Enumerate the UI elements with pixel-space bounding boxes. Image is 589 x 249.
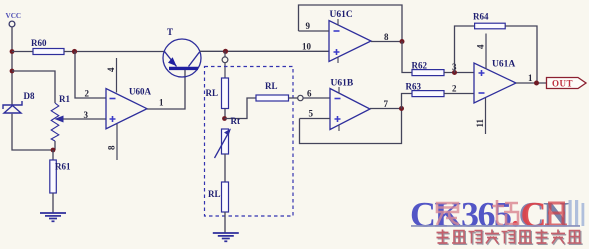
svg-text:RL: RL — [206, 88, 219, 98]
power terminal VCC — [6, 12, 22, 27]
svg-text:VCC: VCC — [6, 12, 22, 20]
wire R60 to transistor emitter — [64, 51, 164, 53]
svg-text:R1: R1 — [59, 94, 70, 104]
resistor RL (horizontal) — [256, 81, 289, 101]
watermark red glyph over K3 — [437, 203, 459, 225]
wire U61C feedback loop — [299, 5, 403, 42]
junction pin3/R64 node — [452, 70, 457, 75]
terminal circle top of bridge — [222, 51, 228, 78]
ground (bridge) — [213, 233, 239, 241]
svg-text:4: 4 — [106, 67, 116, 72]
watermark red strokes over N — [545, 203, 567, 225]
junction VCC/R60 — [10, 49, 15, 54]
op-amp U60A — [106, 87, 151, 129]
resistor R60 — [31, 38, 64, 55]
resistor RL (bottom of bridge) — [208, 182, 229, 233]
svg-text:7: 7 — [384, 99, 389, 109]
svg-text:R64: R64 — [473, 12, 489, 22]
op-amp U61A — [474, 60, 516, 104]
wire RL to terminal circle and pin 6 — [289, 95, 331, 100]
svg-text:T: T — [167, 27, 173, 37]
dashed bridge box — [205, 67, 294, 217]
junction U61C output node — [400, 39, 405, 44]
watermark underline — [411, 225, 580, 227]
wire U61B feedback loop — [300, 109, 402, 144]
junction VCC/R1 tap — [10, 69, 15, 74]
svg-text:6: 6 — [307, 89, 312, 99]
wire U61B pin 5 — [300, 109, 331, 119]
junction R60 output node — [72, 49, 77, 54]
potentiometer R1 — [51, 94, 70, 150]
svg-text:5: 5 — [309, 109, 314, 119]
svg-text:RL: RL — [265, 81, 278, 91]
svg-text:10: 10 — [302, 42, 312, 52]
wire U61C node down to R62 — [402, 42, 412, 73]
ground (R61) — [40, 213, 66, 221]
svg-text:D8: D8 — [24, 91, 35, 101]
wire to R60 — [12, 51, 33, 53]
wire R63 to U61A pin 2 — [444, 84, 474, 94]
svg-text:U61B: U61B — [331, 79, 354, 89]
connector OUT — [547, 78, 587, 89]
junction R1/R61/D8 node — [51, 148, 56, 153]
svg-text:1: 1 — [528, 73, 533, 83]
svg-text:11: 11 — [475, 118, 485, 127]
svg-text:C: C — [521, 195, 547, 235]
svg-text:U61A: U61A — [492, 60, 515, 70]
op-amp U61A pin 11 stub — [475, 98, 486, 134]
svg-text:Rt: Rt — [231, 116, 241, 126]
svg-text:9: 9 — [306, 21, 311, 31]
wire U60A output pin 1 to transistor base — [147, 70, 185, 109]
svg-text:2: 2 — [85, 89, 90, 99]
resistor R63 — [406, 82, 445, 97]
wire node down to op-amp pin 2 — [75, 52, 106, 99]
op-amp U60A pin 8 stub — [107, 124, 118, 160]
op-amp U61B — [330, 79, 370, 132]
wire Rt to bottom RL — [224, 154, 226, 182]
wire U61B output pin 7 — [370, 99, 402, 109]
wire collector rail to U61C pin 10 — [200, 50, 330, 52]
svg-text:4: 4 — [476, 44, 486, 49]
zener diode D8 — [3, 91, 35, 113]
op-amp U61A pin 4 stub — [476, 34, 487, 70]
svg-text:8: 8 — [107, 145, 117, 150]
svg-text:2: 2 — [452, 84, 457, 94]
wire bridge node to horizontal RL — [225, 98, 257, 119]
svg-text:OUT: OUT — [552, 79, 573, 89]
svg-text:RL: RL — [208, 189, 221, 199]
watermark logo CK365.CN — [410, 195, 569, 235]
wire U61A output pin 1 — [516, 73, 547, 83]
svg-text:1: 1 — [159, 98, 164, 108]
resistor R61 — [50, 150, 71, 213]
wire U61C pin 9 — [299, 21, 330, 31]
svg-text:R61: R61 — [55, 162, 71, 172]
resistor RL (top left of bridge) — [206, 78, 229, 119]
thermistor Rt — [215, 116, 241, 158]
watermark light blue bars — [569, 200, 585, 226]
wire R62 to U61A pin 3 — [444, 62, 474, 73]
svg-text:R60: R60 — [31, 38, 47, 48]
wire U61C output pin 8 — [371, 32, 402, 42]
junction bridge mid node — [222, 116, 227, 121]
svg-text:8: 8 — [384, 32, 389, 42]
wire D8 bottom to R61 node — [12, 114, 53, 150]
wire U61B node up to R63 — [402, 94, 413, 109]
transistor T — [163, 27, 201, 77]
op-amp U60A pin 4 stub — [106, 58, 117, 93]
resistor R62 — [412, 61, 445, 76]
watermark red glyph over 65 — [492, 200, 518, 225]
svg-text:U60A: U60A — [129, 87, 151, 97]
wire VCC rail — [11, 27, 13, 105]
svg-text:U61C: U61C — [330, 10, 353, 20]
op-amp U61C — [329, 10, 371, 63]
resistor R64 feedback — [455, 12, 538, 84]
wire VCC tap to R1 top — [12, 71, 55, 103]
junction rail / bridge tap — [223, 49, 228, 54]
wire R1 wiper to op-amp pin 3 — [55, 116, 107, 123]
svg-text:3: 3 — [84, 110, 89, 120]
junction U61B output node — [399, 106, 404, 111]
junction output/R64 node — [534, 81, 539, 86]
